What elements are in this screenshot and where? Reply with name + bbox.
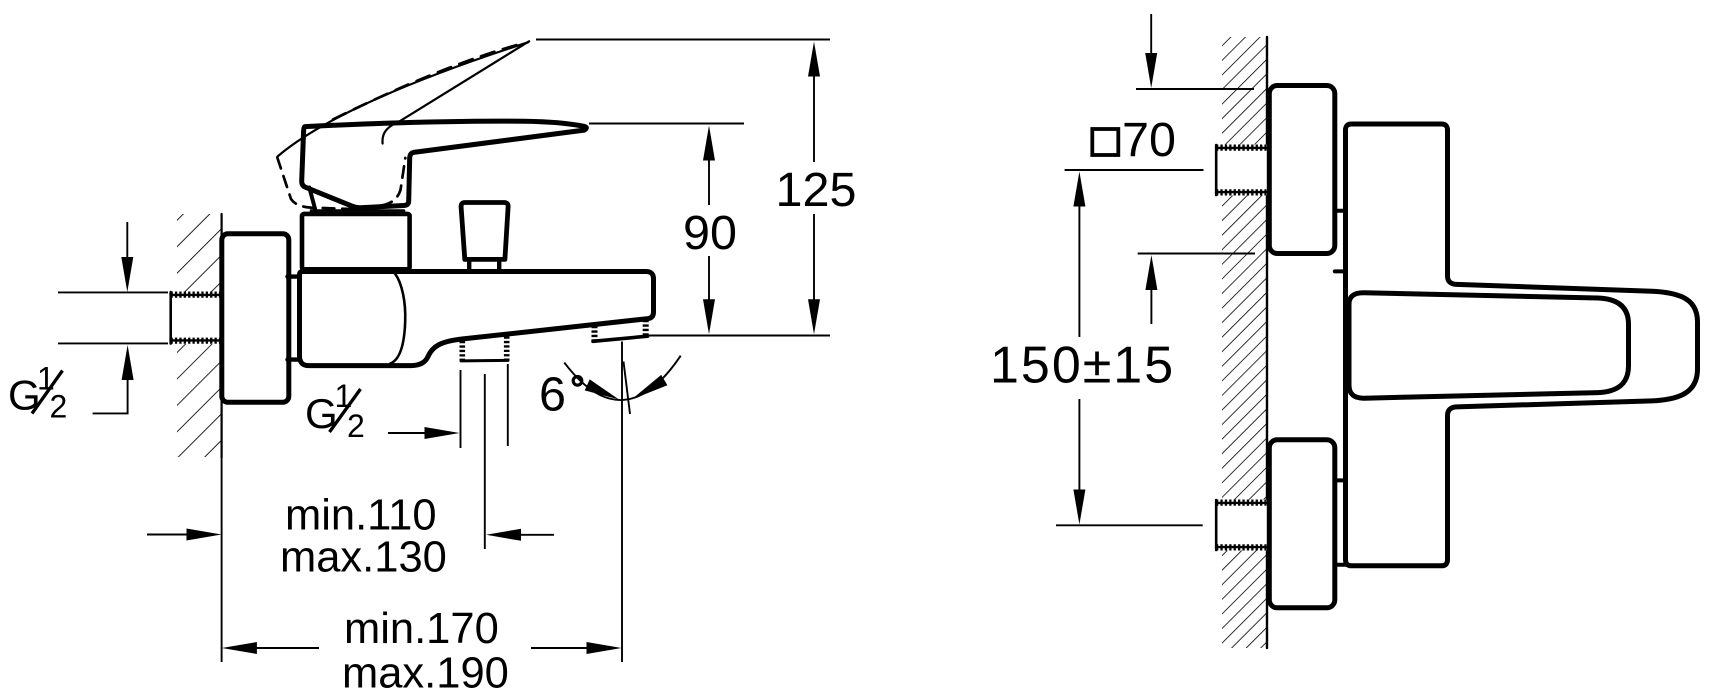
cartridge housing block bbox=[302, 214, 410, 269]
wall G1/2 label bbox=[8, 361, 67, 425]
svg-text:G: G bbox=[8, 372, 41, 419]
LEFT VIEW bbox=[171, 41, 654, 458]
raised lever underside (thin) bbox=[382, 41, 529, 143]
spout G1/2 label bbox=[305, 378, 365, 444]
body crease line (spout root) bbox=[391, 274, 406, 364]
spout G1/2 arrow bbox=[388, 427, 460, 439]
lower nipple (right view) bbox=[1216, 500, 1267, 551]
extension line lever tip (90) bbox=[589, 123, 744, 125]
wall face line (left view) bbox=[221, 214, 223, 458]
svg-text:min.110: min.110 bbox=[285, 492, 437, 540]
6 deg arc arrowheads bbox=[585, 379, 619, 399]
spout 6 deg tilted line bbox=[624, 362, 631, 415]
svg-text:max.190: max.190 bbox=[342, 650, 509, 698]
diverter knob neck bbox=[469, 262, 499, 272]
svg-text:90: 90 bbox=[683, 206, 737, 260]
wall flange escutcheon (left view) bbox=[222, 234, 289, 402]
min170 dimension arrows bbox=[222, 642, 622, 654]
outlet extension lines bbox=[460, 370, 462, 448]
wall hatch upper (left view) bbox=[177, 214, 222, 293]
wall hatch top (right view) bbox=[1222, 37, 1267, 145]
upper mounting escutcheon block bbox=[1269, 86, 1335, 254]
raised lever hidden edge (dashed) bbox=[333, 44, 521, 120]
extension line block bottom bbox=[1138, 253, 1255, 255]
svg-text:150±15: 150±15 bbox=[990, 337, 1175, 395]
mixer body and spout (left view) bbox=[300, 272, 654, 366]
wall G1/2 upper arrow bbox=[121, 222, 133, 292]
spout aerator outlet bbox=[593, 320, 648, 341]
150 dimension arrows bbox=[1073, 172, 1085, 525]
handle base rim line bbox=[311, 209, 404, 212]
diverter knob bbox=[461, 203, 508, 260]
extension line block top bbox=[1136, 88, 1254, 90]
bottom outlet G1/2 thread bbox=[461, 337, 508, 361]
svg-text:2: 2 bbox=[50, 389, 68, 425]
handle skirt edge bbox=[309, 188, 316, 213]
extension line upper nipple center bbox=[1065, 169, 1204, 171]
wall face extension line (lower) bbox=[221, 459, 223, 662]
extension line lower nipple center bbox=[1056, 524, 1203, 526]
extension line spout bottom bbox=[648, 335, 830, 337]
raised lever top edge (thin) bbox=[278, 42, 529, 156]
handle grip inner outline (front view) bbox=[1349, 293, 1629, 398]
inlet nipple G1/2 (left view) bbox=[171, 292, 222, 345]
sq70 dimension arrows bbox=[1145, 14, 1157, 324]
wall G1/2 extension lines bbox=[58, 291, 168, 293]
LEFT VIEW DIMENSIONS bbox=[8, 40, 856, 698]
svg-text:6: 6 bbox=[539, 368, 566, 422]
6 deg arc bbox=[564, 356, 680, 400]
lever handle (solid position) bbox=[302, 121, 587, 208]
dimension 125 arrows bbox=[808, 42, 820, 335]
svg-text:2: 2 bbox=[347, 408, 365, 444]
upper connector stub bbox=[1335, 211, 1346, 272]
svg-text:min.170: min.170 bbox=[344, 605, 499, 653]
wall hatch lower (left view) bbox=[177, 344, 222, 457]
svg-text:125: 125 bbox=[776, 163, 857, 217]
sq70 label bbox=[1092, 113, 1176, 167]
lower mounting escutcheon block bbox=[1269, 440, 1335, 608]
svg-text:70: 70 bbox=[1122, 113, 1176, 167]
RIGHT VIEW DIMENSIONS bbox=[990, 14, 1255, 525]
wall hatch bottom (right view) bbox=[1222, 550, 1267, 648]
wall hatch middle (right view) bbox=[1222, 196, 1267, 500]
min110 dimension arrows bbox=[147, 529, 554, 541]
svg-text:max.130: max.130 bbox=[280, 534, 447, 582]
raised handle body outline (dashed) bbox=[277, 158, 405, 210]
lower connector stub bbox=[1335, 480, 1346, 564]
wall G1/2 lower arrow with leader bbox=[93, 345, 134, 413]
mixer body front view with handle silhouette bbox=[1346, 124, 1698, 566]
upper nipple (right view) bbox=[1216, 145, 1267, 196]
wall face line (right view) bbox=[1266, 37, 1268, 648]
RIGHT VIEW bbox=[1216, 37, 1698, 648]
extension line top (125) bbox=[536, 39, 830, 41]
connector stub between flange and body bbox=[288, 277, 301, 360]
spout vertical reference line bbox=[621, 342, 623, 663]
dimension 90 arrows bbox=[703, 126, 715, 335]
